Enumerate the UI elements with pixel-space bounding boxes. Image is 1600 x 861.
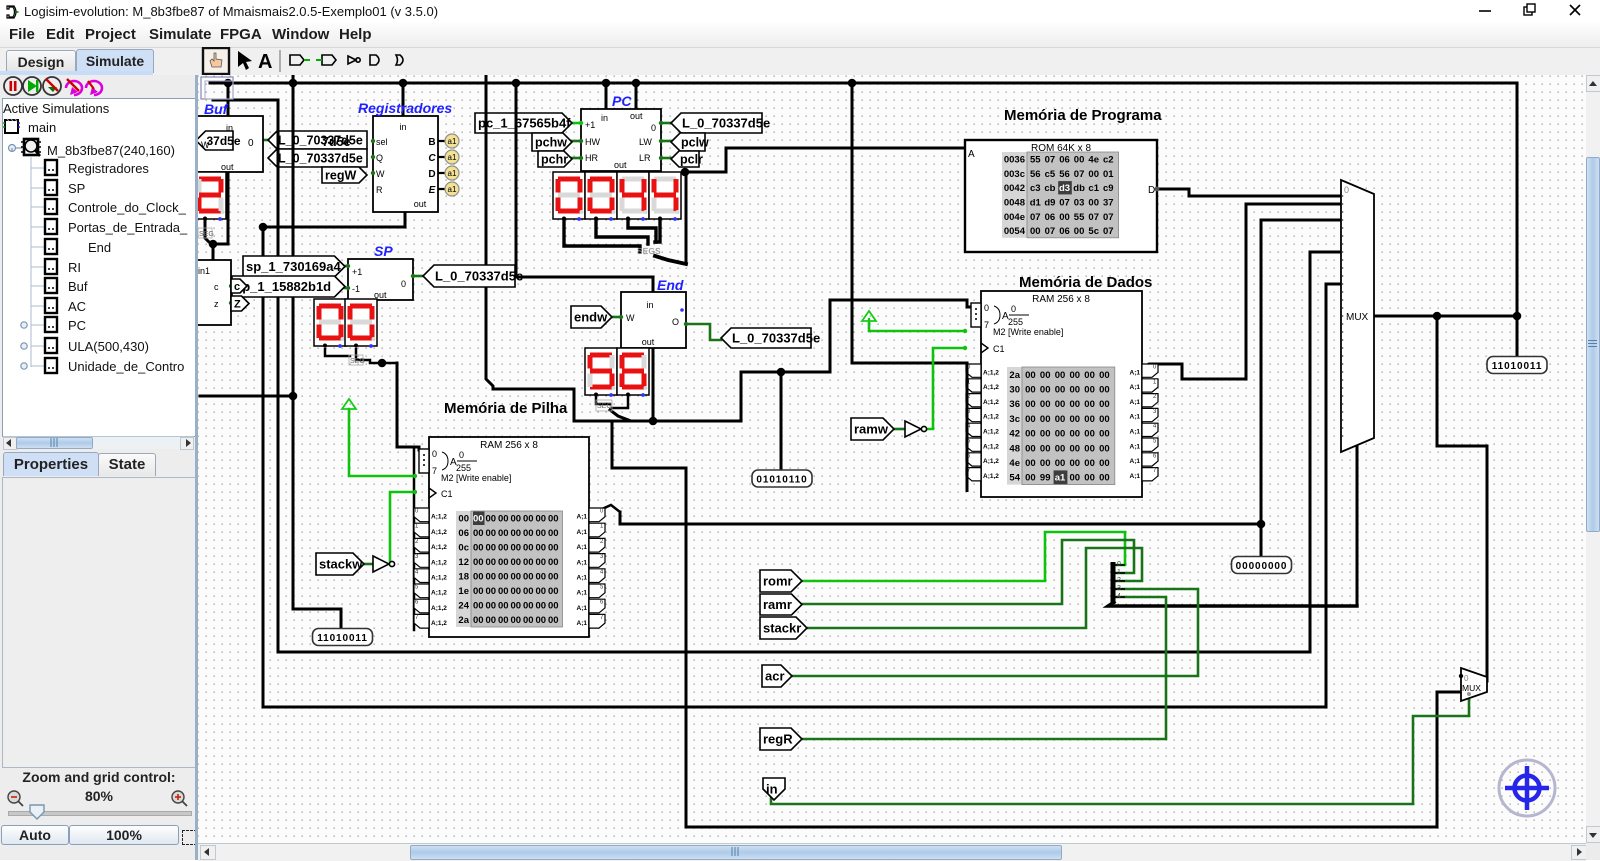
svg-text:RI: RI [68, 260, 81, 275]
svg-text:Memória de Pilha: Memória de Pilha [444, 400, 568, 417]
svg-text:L_0_70337d5e: L_0_70337d5e [278, 152, 363, 166]
svg-text:00: 00 [498, 572, 509, 583]
wire x1261 MUX input 2 to probe 00000000 [1260, 220, 1263, 556]
svg-text:A;1,2: A;1,2 [431, 514, 447, 521]
tunnel pclw [671, 133, 709, 151]
svg-text:LW: LW [639, 137, 652, 147]
svg-text:07: 07 [1059, 198, 1070, 209]
svg-text:30: 30 [1009, 385, 1020, 396]
tunnel L_0_70337d5e (End O) [721, 328, 820, 348]
svg-text:cb: cb [1044, 183, 1055, 194]
svg-text:07: 07 [1045, 155, 1056, 166]
svg-text:00: 00 [1025, 473, 1036, 484]
svg-text:00: 00 [1025, 414, 1036, 425]
svg-text:54: 54 [1009, 473, 1020, 484]
wire pc_1 tunnel to PC +1 (bright) [572, 122, 581, 125]
svg-text:00: 00 [1070, 458, 1081, 469]
svg-text:a1: a1 [1055, 473, 1066, 484]
svg-text:00: 00 [498, 514, 509, 525]
svg-text:00: 00 [535, 586, 546, 597]
svg-text:99: 99 [1040, 473, 1051, 484]
svg-text:A;1,2: A;1,2 [431, 590, 447, 597]
svg-text:A;1,2: A;1,2 [431, 605, 447, 612]
tree hscrollbar [3, 436, 194, 449]
svg-text:A;1: A;1 [577, 529, 588, 536]
svg-text:0: 0 [984, 303, 989, 313]
svg-text:00: 00 [510, 543, 521, 554]
svg-text:A: A [968, 149, 975, 160]
svg-text:A;1,2: A;1,2 [983, 458, 999, 465]
svg-text:00: 00 [1074, 226, 1085, 237]
svg-text:00: 00 [1040, 385, 1051, 396]
tunnel c [231, 279, 247, 293]
node SP display bus [378, 359, 387, 368]
node Pilha M2 pin [413, 474, 417, 478]
node Pilha C1 pin [413, 490, 417, 494]
svg-text:M2 [Write enable]: M2 [Write enable] [993, 327, 1063, 337]
wire trunk x293 down to probe 11010011 [293, 75, 341, 628]
svg-text:B: B [428, 137, 435, 148]
svg-text:7: 7 [984, 320, 989, 330]
node MUX output / trunk [1513, 312, 1522, 321]
svg-text:00: 00 [1088, 169, 1099, 180]
NOT gate (ramw) [905, 421, 921, 437]
svg-text:00: 00 [1040, 443, 1051, 454]
svg-text:00: 00 [523, 586, 534, 597]
svg-text:c: c [214, 282, 219, 292]
tunnel L_0_70337d5e (Buf out a) [268, 131, 367, 149]
pin a1 output B [438, 140, 445, 142]
node x293/y396 [289, 392, 298, 401]
svg-text:00: 00 [548, 514, 559, 525]
svg-text:00: 00 [510, 528, 521, 539]
svg-text:A;1,2: A;1,2 [431, 620, 447, 627]
multiplexer MUX2 [1459, 668, 1487, 701]
svg-text:d9: d9 [1044, 198, 1055, 209]
svg-text:pclr: pclr [680, 153, 703, 167]
node End out bus [649, 417, 658, 426]
svg-text:0042: 0042 [1004, 183, 1025, 194]
wire PC O to tunnel [661, 122, 671, 125]
RAM 256x8 Memoria de Pilha [419, 437, 589, 637]
svg-text:11010011: 11010011 [1492, 361, 1543, 372]
svg-text:a1: a1 [448, 153, 457, 162]
wire PC display digit2 pin [596, 219, 648, 244]
svg-text:07: 07 [1103, 212, 1114, 223]
power pull-up arrow (Dados M2) [862, 311, 876, 321]
subcircuit Registradores [373, 116, 438, 212]
wire End out down to y421 [652, 348, 655, 421]
svg-text:00: 00 [1055, 399, 1066, 410]
tunnel Z [231, 296, 249, 311]
svg-text:255: 255 [456, 463, 471, 473]
svg-text:48: 48 [1009, 443, 1020, 454]
svg-text:A;1: A;1 [1130, 443, 1141, 450]
wire Pilha right tab bus exit [602, 505, 620, 512]
tunnel L_0_70337d5e (PC O) [671, 113, 770, 133]
wire display bus stub [382, 362, 397, 365]
wire End display bus merge [610, 410, 653, 421]
wire ramw to NOT gate [894, 428, 905, 431]
svg-text:00: 00 [1070, 370, 1081, 381]
svg-text:00: 00 [498, 586, 509, 597]
svg-text:00: 00 [1084, 429, 1095, 440]
svg-text:00: 00 [1099, 458, 1110, 469]
svg-text:00: 00 [523, 572, 534, 583]
wire top trunk bus to MUX output node [210, 83, 1517, 356]
svg-text:PC: PC [612, 93, 632, 109]
pin ROM D [1155, 187, 1160, 192]
svg-text:1: 1 [1117, 569, 1121, 576]
svg-text:3c: 3c [1009, 414, 1020, 425]
svg-text:A;1: A;1 [577, 590, 588, 597]
svg-text:0: 0 [1344, 185, 1349, 195]
svg-text:06: 06 [1059, 155, 1070, 166]
wire PC display digit4 pin [655, 219, 660, 242]
svg-text:A;1,2: A;1,2 [983, 414, 999, 421]
wire stackr to splitter bit2 [805, 548, 1142, 628]
wire stackw to NOT gate [364, 563, 373, 566]
tunnel stackr [760, 617, 807, 639]
wire ramr to splitter bit1 [800, 540, 1134, 604]
svg-text:out: out [221, 162, 234, 172]
wire vertical x486 from off-screen to y421 bus [486, 75, 574, 421]
wire Pilha left port bus [413, 447, 416, 630]
svg-text:00: 00 [523, 543, 534, 554]
wire sp tunnel to -1 [345, 287, 348, 290]
svg-text:out: out [414, 199, 427, 209]
svg-text:00: 00 [485, 572, 496, 583]
svg-text:sel: sel [376, 137, 388, 147]
svg-text:A;1,2: A;1,2 [431, 575, 447, 582]
svg-text:1e: 1e [458, 586, 469, 597]
svg-text:55: 55 [1030, 155, 1041, 166]
node MUX output to MUX2 [1433, 312, 1442, 321]
svg-text:LR: LR [639, 153, 651, 163]
wire x263 down to y707 to MUX input 4 [263, 227, 1341, 707]
tree content drawn in svg [0, 75, 198, 455]
wire PC LW to pclw [661, 140, 671, 143]
svg-text:12: 12 [458, 557, 469, 568]
svg-text:00: 00 [1025, 370, 1036, 381]
svg-text:SEGS: SEGS [637, 247, 661, 256]
svg-text:00: 00 [498, 557, 509, 568]
tunnel ramw [851, 418, 894, 440]
wire SP display digit1 pin [325, 349, 350, 356]
7-segment digit 6 (End) [617, 348, 649, 397]
svg-text:A;1: A;1 [577, 575, 588, 582]
svg-text:A;1,2: A;1,2 [983, 429, 999, 436]
svg-text:06: 06 [1059, 226, 1070, 237]
svg-text:00: 00 [473, 557, 484, 568]
svg-text:Z: Z [234, 299, 241, 311]
svg-text:00: 00 [548, 601, 559, 612]
svg-text:pchw: pchw [535, 136, 567, 150]
svg-text:004e: 004e [1004, 212, 1025, 223]
wire in tunnel to MUX2 select [771, 695, 1469, 804]
wire x516 over pc tunnel [515, 107, 518, 140]
svg-text:ramw: ramw [854, 422, 889, 437]
svg-text:L_0_70337d5e: L_0_70337d5e [682, 116, 770, 131]
svg-text:00: 00 [1040, 414, 1051, 425]
probe 01010110 (end bus) [752, 470, 812, 487]
svg-text:00: 00 [1074, 155, 1085, 166]
svg-text:D: D [1148, 185, 1155, 196]
svg-text:W: W [201, 140, 210, 150]
svg-text:out: out [642, 337, 655, 347]
svg-text:00: 00 [473, 514, 484, 525]
RAM Dados right ports [1130, 364, 1158, 481]
svg-text:00: 00 [548, 572, 559, 583]
pin a1 output E [438, 188, 445, 190]
svg-text:00: 00 [1025, 399, 1036, 410]
svg-text:00: 00 [523, 557, 534, 568]
wire into MUX input 2 [1261, 219, 1341, 222]
svg-text:00: 00 [1055, 414, 1066, 425]
svg-text:00: 00 [485, 615, 496, 626]
wire SP 0 out to tunnel [413, 275, 423, 278]
svg-text:SEG: SEG [199, 231, 214, 238]
svg-text:00: 00 [1084, 473, 1095, 484]
svg-text:00: 00 [485, 601, 496, 612]
svg-text:a1: a1 [448, 137, 457, 146]
svg-text:00: 00 [510, 615, 521, 626]
svg-text:00: 00 [535, 543, 546, 554]
svg-text:00: 00 [1084, 443, 1095, 454]
wire End O to tunnel [686, 324, 721, 340]
svg-text:0054: 0054 [1004, 226, 1026, 237]
7-segment display Buf value 2 [194, 172, 226, 221]
svg-text:d1: d1 [1030, 198, 1042, 209]
svg-text:56: 56 [1030, 169, 1041, 180]
svg-text:37: 37 [1103, 198, 1114, 209]
svg-text:M2 [Write enable]: M2 [Write enable] [441, 473, 511, 483]
svg-text:00: 00 [1030, 226, 1041, 237]
svg-text:SP: SP [68, 181, 85, 196]
svg-text:00: 00 [1099, 385, 1110, 396]
svg-text:A;1,2: A;1,2 [983, 399, 999, 406]
7-segment digit 4 (PC) [649, 172, 681, 221]
svg-text:2a: 2a [458, 615, 469, 626]
wire y421 bus to Dados RAM address [574, 300, 972, 421]
node trunk junction x=606 [602, 79, 611, 88]
tunnel sp_1_730169a4 [243, 256, 345, 277]
svg-text:acr: acr [765, 669, 785, 684]
svg-text:in: in [766, 782, 778, 797]
node y524 / x1261 [1257, 520, 1266, 529]
svg-text:00: 00 [535, 528, 546, 539]
wire regR to splitter bit4 [800, 597, 1166, 739]
svg-text:Portas_de_Entrada_: Portas_de_Entrada_ [68, 220, 188, 235]
svg-text:00: 00 [1084, 458, 1095, 469]
svg-text:36: 36 [1009, 399, 1020, 410]
ROM 64Kx8 Memoria de Programa [965, 140, 1157, 252]
svg-text:00: 00 [1070, 414, 1081, 425]
wire PC display node to ROM A input [685, 148, 966, 172]
svg-text:00: 00 [535, 601, 546, 612]
svg-text:00: 00 [1055, 385, 1066, 396]
svg-text:00: 00 [498, 615, 509, 626]
svg-text:07: 07 [1030, 212, 1041, 223]
wire Pilha data out y524 to MUX input 2 net [620, 512, 1261, 524]
main row [3, 119, 20, 133]
svg-text:00: 00 [1084, 399, 1095, 410]
svg-text:00: 00 [548, 528, 559, 539]
svg-text:ramr: ramr [763, 597, 792, 612]
svg-text:pc_1_67565b4f: pc_1_67565b4f [478, 116, 571, 131]
svg-text:00: 00 [1099, 443, 1110, 454]
svg-text:0c: 0c [458, 543, 469, 554]
svg-text:00: 00 [1025, 458, 1036, 469]
svg-text:11010011: 11010011 [317, 633, 368, 644]
svg-text:07: 07 [1045, 226, 1056, 237]
svg-text:00: 00 [548, 543, 559, 554]
svg-text:L_0_70337d5e: L_0_70337d5e [732, 331, 820, 346]
svg-text:L_0_70337d5e: L_0_70337d5e [435, 269, 523, 284]
svg-text:0: 0 [248, 138, 254, 149]
svg-text:00: 00 [523, 514, 534, 525]
svg-text:c3: c3 [1030, 183, 1041, 194]
svg-text:A;1,2: A;1,2 [431, 529, 447, 536]
toolbar icons [198, 47, 418, 75]
svg-text:c1: c1 [1088, 183, 1099, 194]
svg-text:00: 00 [523, 601, 534, 612]
svg-text:00: 00 [1070, 385, 1081, 396]
wire NOT out to Dados C1 [926, 348, 965, 429]
svg-text:00: 00 [1040, 429, 1051, 440]
wire trunk to PC out-top [635, 83, 638, 109]
svg-text:4: 4 [1117, 593, 1121, 600]
wire splitter bus to MUX select [1356, 445, 1359, 606]
Properties/State tabs [3, 452, 99, 476]
svg-text:55: 55 [1074, 212, 1085, 223]
svg-text:3: 3 [1117, 585, 1121, 592]
node trunk junction x=228 [224, 79, 233, 88]
svg-text:A;1: A;1 [1130, 458, 1141, 465]
node Dados C1 pin [963, 346, 967, 350]
svg-text:c9: c9 [1103, 183, 1114, 194]
wire Buf out down [213, 171, 228, 244]
wire sp tunnel to +1 [345, 265, 348, 268]
svg-text:00: 00 [548, 586, 559, 597]
tunnel acr [762, 665, 792, 687]
svg-text:2a: 2a [1009, 370, 1020, 381]
svg-text:out: out [614, 160, 627, 170]
svg-text:C1: C1 [441, 489, 453, 499]
splitter PC display segments [637, 247, 661, 256]
svg-text:End: End [657, 277, 684, 293]
svg-text:00: 00 [1025, 443, 1036, 454]
wire trunk to Registradores in [402, 83, 405, 116]
wire SP display digit2 pin [356, 349, 382, 363]
svg-text:sp_1_15882b1d: sp_1_15882b1d [235, 279, 331, 294]
svg-text:00: 00 [548, 557, 559, 568]
svg-text:A;1,2: A;1,2 [431, 559, 447, 566]
wire PC display bus to x686 [655, 256, 686, 264]
node trunk junction x=852 [848, 79, 857, 88]
crosshair navigation widget [1499, 760, 1555, 816]
svg-text:00: 00 [473, 615, 484, 626]
7-segment digit 0 (SP hi) [314, 299, 346, 348]
svg-text:7d5e: 7d5e [322, 135, 351, 149]
svg-text:PC: PC [68, 318, 86, 333]
wire End-out bus branch y468 [612, 423, 686, 468]
tunnel romr [760, 570, 802, 592]
svg-text:00: 00 [523, 528, 534, 539]
node Buf display bus [209, 240, 218, 249]
svg-text:7: 7 [432, 466, 437, 476]
tunnel endw [571, 306, 612, 328]
svg-text:00: 00 [510, 601, 521, 612]
7-segment digit 0 (PC) [553, 172, 585, 221]
svg-text:003c: 003c [1004, 169, 1025, 180]
svg-text:00: 00 [535, 557, 546, 568]
node Registradores out joins x263 [259, 223, 268, 232]
wire PC display bus up to node [685, 172, 688, 264]
svg-text:00: 00 [1099, 399, 1110, 410]
wire acr to splitter bit3 [790, 589, 1198, 676]
splitter 5-bit control bus [1113, 561, 1125, 604]
svg-text:0: 0 [432, 449, 437, 459]
svg-text:Q: Q [376, 153, 383, 163]
svg-text:00: 00 [1099, 473, 1110, 484]
svg-text:stackw: stackw [319, 557, 363, 572]
svg-text:00: 00 [498, 528, 509, 539]
svg-text:00: 00 [1040, 370, 1051, 381]
svg-text:A;1: A;1 [577, 605, 588, 612]
svg-text:00: 00 [510, 586, 521, 597]
svg-text:A;1: A;1 [1130, 429, 1141, 436]
svg-text:pchr: pchr [541, 153, 568, 167]
svg-text:00: 00 [498, 601, 509, 612]
wire trunk to Buf in [227, 83, 230, 116]
svg-text:24: 24 [458, 601, 469, 612]
wire NOT out to Pilha C1 [390, 492, 415, 564]
svg-text:0: 0 [401, 279, 406, 289]
svg-text:Registradores: Registradores [68, 161, 149, 176]
svg-text:AC: AC [68, 299, 86, 314]
svg-text:00: 00 [1084, 370, 1095, 381]
svg-text:00: 00 [1070, 443, 1081, 454]
svg-text:37d5e: 37d5e [207, 134, 241, 148]
svg-text:Registradores: Registradores [358, 100, 452, 116]
svg-text:+1: +1 [585, 120, 595, 130]
svg-text:SP: SP [374, 243, 393, 259]
zoom icons [6, 789, 192, 807]
svg-text:01010110: 01010110 [756, 475, 807, 486]
svg-text:4e: 4e [1088, 155, 1099, 166]
svg-text:A;1: A;1 [1130, 369, 1141, 376]
svg-text:in: in [399, 122, 406, 132]
svg-text:HR: HR [585, 153, 598, 163]
wire MUX output [1374, 315, 1517, 318]
tunnel pchw [532, 133, 572, 151]
svg-text:c5: c5 [1045, 169, 1056, 180]
RAM Pilha left ports [414, 508, 447, 628]
svg-text:romr: romr [763, 574, 793, 589]
svg-text:18: 18 [458, 572, 469, 583]
wire romr to splitter bit0 (bright) [800, 532, 1125, 581]
svg-text:A;1: A;1 [1130, 384, 1141, 391]
node trunk junction x=403 [399, 79, 408, 88]
svg-text:End: End [88, 240, 111, 255]
splitter End display segments [596, 400, 612, 411]
slider [8, 811, 192, 816]
svg-text:c: c [234, 281, 240, 293]
RAM Pilha right ports [577, 508, 605, 628]
subcircuit Portas_de_Entrada (in1) [190, 260, 231, 325]
svg-text:Memória de Dados: Memória de Dados [1019, 274, 1152, 291]
